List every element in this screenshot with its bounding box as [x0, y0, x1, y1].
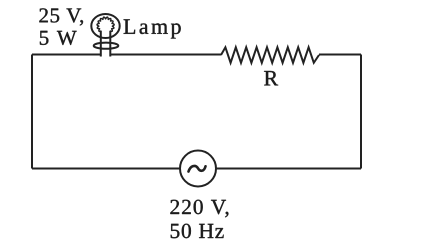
wire top-mid segment [111, 54, 221, 56]
wire bottom-right segment [217, 168, 362, 170]
wire top-left segment [32, 54, 100, 56]
lamp screw base ellipse [94, 43, 119, 49]
wire left side [31, 55, 33, 169]
wire top-right segment [319, 54, 361, 56]
AC source tilde [189, 166, 206, 172]
label 50 Hz [171, 224, 224, 239]
label 25 V, [39, 8, 83, 25]
lamp filament scallop [97, 17, 114, 31]
label 220 V, [170, 200, 228, 218]
wire right side [360, 55, 362, 169]
lamp neck left line [100, 31, 102, 57]
wire bottom-left segment [32, 168, 180, 170]
lamp glass envelope [91, 14, 119, 38]
lamp neck right line [109, 31, 111, 57]
resistor R [221, 47, 319, 63]
label R [264, 71, 278, 85]
AC source circle [180, 151, 216, 187]
label Lamp [124, 19, 181, 38]
label 5 W [40, 31, 77, 45]
